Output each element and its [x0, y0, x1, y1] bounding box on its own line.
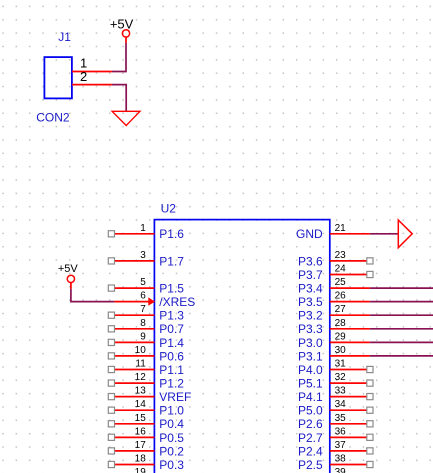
svg-text:P3.5: P3.5	[298, 295, 323, 309]
svg-text:10: 10	[135, 345, 147, 356]
svg-text:P3.3: P3.3	[298, 322, 323, 336]
svg-text:P0.5: P0.5	[159, 431, 184, 445]
svg-text:U2: U2	[161, 201, 177, 215]
connector J1	[44, 57, 72, 98]
U2 pin 38 no-connect square	[367, 461, 373, 467]
U2 pin 12 (P1.2) stub	[114, 382, 154, 384]
U2 pin 10 (P0.6) stub	[114, 355, 154, 357]
svg-text:8: 8	[140, 318, 146, 329]
svg-text:2: 2	[80, 69, 87, 84]
U2 pin 18 no-connect square	[108, 461, 114, 467]
svg-text:35: 35	[335, 413, 347, 424]
U2 pin 8 (P0.7) stub	[114, 328, 154, 330]
U2 pin 35 (P2.6) stub	[330, 423, 370, 425]
U2 pin 12 no-connect square	[108, 380, 114, 386]
svg-text:+5V: +5V	[58, 263, 79, 275]
U2 pin 29 (P3.0) stub	[330, 341, 370, 343]
U2 pin 15 (P0.4) stub	[114, 423, 154, 425]
svg-text:J1: J1	[58, 30, 71, 44]
svg-text:21: 21	[335, 223, 347, 234]
svg-text:9: 9	[140, 331, 146, 342]
svg-text:P3.0: P3.0	[298, 336, 323, 350]
svg-text:29: 29	[335, 331, 347, 342]
U2 pin 30 (P3.1) stub	[330, 355, 370, 357]
U2 pin 24 (P3.7) stub	[330, 274, 370, 276]
svg-text:P3.2: P3.2	[298, 309, 323, 323]
svg-text:14: 14	[135, 399, 147, 410]
svg-text:28: 28	[335, 318, 347, 329]
wire J1.1 to +5V	[112, 43, 126, 72]
svg-text:P3.7: P3.7	[298, 268, 323, 282]
U2 pin 36 (P2.7) stub	[330, 436, 370, 438]
svg-text:25: 25	[335, 277, 347, 288]
svg-text:5: 5	[140, 277, 146, 288]
svg-text:27: 27	[335, 304, 347, 315]
svg-text:12: 12	[135, 372, 147, 383]
svg-text:GND: GND	[296, 227, 323, 241]
svg-text:P1.3: P1.3	[159, 309, 184, 323]
svg-text:30: 30	[335, 345, 347, 356]
svg-text:24: 24	[335, 264, 347, 275]
svg-text:P1.0: P1.0	[159, 404, 184, 418]
U2 pin 15 no-connect square	[108, 421, 114, 427]
svg-text:6: 6	[140, 291, 146, 302]
svg-text:37: 37	[335, 440, 347, 451]
svg-text:32: 32	[335, 372, 347, 383]
U2 pin 9 no-connect square	[108, 339, 114, 345]
U2 pin 7 (P1.3) stub	[114, 314, 154, 316]
U2 pin 37 no-connect square	[367, 448, 373, 454]
svg-text:P5.1: P5.1	[298, 377, 323, 391]
svg-text:P3.4: P3.4	[298, 282, 323, 296]
U2 pin 9 (P1.4) stub	[114, 341, 154, 343]
U2 pin 34 no-connect square	[367, 407, 373, 413]
wire P3.1 to right edge	[370, 355, 433, 357]
U2 pin 25 (P3.4) stub	[330, 287, 370, 289]
svg-text:P0.6: P0.6	[159, 349, 184, 363]
svg-text:3: 3	[140, 250, 146, 261]
U2 pin 11 (P1.1) stub	[114, 369, 154, 371]
U2 pin 5 (P1.5) stub	[114, 287, 154, 289]
U2 pin 26 (P3.5) stub	[330, 301, 370, 303]
U2 pin 14 no-connect square	[108, 407, 114, 413]
U2 pin 1 (P1.6) stub	[114, 233, 154, 235]
svg-text:7: 7	[140, 304, 146, 315]
U2 pin 3 (P1.7) stub	[114, 260, 154, 262]
svg-text:P0.7: P0.7	[159, 322, 184, 336]
U2 pin 33 (P4.1) stub	[330, 396, 370, 398]
svg-text:1: 1	[140, 223, 146, 234]
U2 pin 27 (P3.2) stub	[330, 314, 370, 316]
U2 pin 35 no-connect square	[367, 421, 373, 427]
U2 pin 1 no-connect square	[108, 231, 114, 237]
wire GND to off-page	[370, 233, 399, 235]
U2 pin 32 (P5.1) stub	[330, 382, 370, 384]
svg-text:P2.6: P2.6	[298, 417, 323, 431]
svg-text:P2.7: P2.7	[298, 431, 323, 445]
svg-text:26: 26	[335, 291, 347, 302]
U2 pin 10 no-connect square	[108, 353, 114, 359]
U2 pin 14 (P1.0) stub	[114, 409, 154, 411]
wire +5V to /XRES	[71, 289, 115, 302]
U2 pin 16 no-connect square	[108, 434, 114, 440]
wire P3.3 to right edge	[370, 328, 433, 330]
svg-text:16: 16	[135, 426, 147, 437]
J1 pin 2 stub	[72, 84, 112, 86]
svg-text:36: 36	[335, 426, 347, 437]
U2 pin 23 no-connect square	[367, 258, 373, 264]
U2 pin 6 input arrow	[148, 297, 155, 305]
svg-text:19: 19	[135, 467, 147, 473]
svg-text:P1.2: P1.2	[159, 377, 184, 391]
svg-text:15: 15	[135, 413, 147, 424]
svg-text:VREF: VREF	[159, 390, 191, 404]
U2 pin 36 no-connect square	[367, 434, 373, 440]
svg-text:39: 39	[335, 467, 347, 473]
svg-text:P5.0: P5.0	[298, 404, 323, 418]
U2 pin 17 (P0.2) stub	[114, 450, 154, 452]
svg-text:11: 11	[135, 359, 146, 370]
svg-text:38: 38	[335, 454, 347, 465]
power +5V (top)	[122, 30, 129, 43]
svg-text:13: 13	[135, 386, 147, 397]
svg-text:CON2: CON2	[36, 110, 70, 124]
U2 pin 16 (P0.5) stub	[114, 436, 154, 438]
svg-text:+5V: +5V	[110, 17, 134, 32]
power +5V (at /XRES)	[67, 275, 74, 289]
U2 pin 18 (P0.3) stub	[114, 464, 154, 466]
U2 pin 34 (P5.0) stub	[330, 409, 370, 411]
wire P3.4 to right edge	[370, 287, 433, 289]
svg-text:P0.3: P0.3	[159, 458, 184, 472]
IC U2 body	[154, 220, 329, 473]
wire J1.2 to ground	[112, 85, 126, 111]
svg-text:P3.1: P3.1	[298, 349, 323, 363]
U2 pin 13 (VREF) stub	[114, 396, 154, 398]
svg-text:P4.1: P4.1	[298, 390, 323, 404]
svg-text:23: 23	[335, 250, 347, 261]
wire P3.2 to right edge	[370, 314, 433, 316]
svg-text:P3.6: P3.6	[298, 254, 323, 268]
U2 pin 7 no-connect square	[108, 312, 114, 318]
svg-text:P4.0: P4.0	[298, 363, 323, 377]
U2 pin 24 no-connect square	[367, 271, 373, 277]
U2 pin 37 (P2.4) stub	[330, 450, 370, 452]
U2 pin 11 no-connect square	[108, 366, 114, 372]
U2 pin 23 (P3.6) stub	[330, 260, 370, 262]
svg-text:P0.2: P0.2	[159, 444, 184, 458]
U2 pin 38 (P2.5) stub	[330, 464, 370, 466]
wire P3.0 to right edge	[370, 341, 433, 343]
U2 pin 3 no-connect square	[108, 258, 114, 264]
wire P3.5 to right edge	[370, 301, 433, 303]
U2 pin 21 (GND) stub	[330, 233, 370, 235]
U2 pin 13 no-connect square	[108, 394, 114, 400]
J1 pin 1 stub	[72, 71, 112, 73]
svg-text:P1.7: P1.7	[159, 254, 184, 268]
svg-text:P1.1: P1.1	[159, 363, 184, 377]
svg-text:31: 31	[335, 359, 347, 370]
svg-text:/XRES: /XRES	[159, 295, 195, 309]
svg-text:P1.5: P1.5	[159, 282, 184, 296]
svg-text:18: 18	[135, 454, 147, 465]
ground	[112, 111, 140, 125]
svg-text:P2.5: P2.5	[298, 458, 323, 472]
U2 pin 32 no-connect square	[367, 380, 373, 386]
U2 pin 6 (/XRES) stub	[114, 301, 154, 303]
off-page connector arrow	[398, 220, 412, 248]
svg-text:17: 17	[135, 440, 147, 451]
svg-text:P1.4: P1.4	[159, 336, 184, 350]
svg-text:P2.4: P2.4	[298, 444, 323, 458]
U2 pin 28 (P3.3) stub	[330, 328, 370, 330]
U2 pin 31 no-connect square	[367, 366, 373, 372]
U2 pin 5 no-connect square	[108, 285, 114, 291]
U2 pin 33 no-connect square	[367, 394, 373, 400]
U2 pin 31 (P4.0) stub	[330, 369, 370, 371]
svg-text:33: 33	[335, 386, 347, 397]
U2 pin 8 no-connect square	[108, 326, 114, 332]
svg-text:P0.4: P0.4	[159, 417, 184, 431]
U2 pin 17 no-connect square	[108, 448, 114, 454]
svg-text:P1.6: P1.6	[159, 227, 184, 241]
svg-text:34: 34	[335, 399, 347, 410]
